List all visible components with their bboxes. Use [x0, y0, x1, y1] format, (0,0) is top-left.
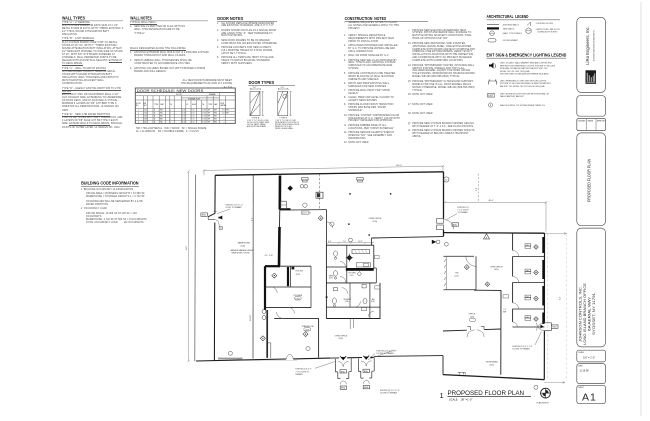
toilet fixtures top — [334, 251, 338, 279]
svg-text:(107): (107) — [329, 278, 333, 280]
keynote circle bottom right — [534, 385, 538, 389]
svg-text:FILE RM: FILE RM — [296, 271, 304, 273]
toilet fixtures bottom — [332, 285, 367, 307]
wall y210 to x326 — [291, 209, 327, 211]
svg-text:TO REMAIN: TO REMAIN — [458, 211, 469, 214]
svg-text:JAN: JAN — [372, 298, 376, 301]
wall notes text column — [130, 22, 209, 76]
kitchen counter — [352, 249, 370, 253]
svg-text:AND MORTISE FRAME: AND MORTISE FRAME — [247, 125, 267, 128]
construction notes column 1 — [344, 22, 400, 146]
svg-text:1: 1 — [170, 119, 171, 121]
svg-text:DOOR SCHEDULE: NEW DOORS: DOOR SCHEDULE: NEW DOORS — [137, 88, 204, 93]
titleblock: LiRo logo — [586, 70, 597, 84]
svg-text:DOOR: DOOR — [176, 94, 182, 96]
open office 102 label — [335, 336, 349, 341]
gray wall bottom-left — [218, 358, 243, 360]
keynote circle bottom wall — [228, 351, 232, 355]
svg-text:BACKUP. TEC MODEL TEC-R-70-M-C: BACKUP. TEC MODEL TEC-R-70-M-CW OR EQUAL… — [500, 85, 546, 88]
keynote circle cluster — [349, 238, 353, 242]
svg-text:3'-4": 3'-4" — [328, 241, 332, 243]
open office 103b label — [490, 266, 504, 271]
work area label — [486, 361, 498, 367]
label wing door — [458, 207, 470, 214]
svg-text:WALL TYPES: WALL TYPES — [62, 15, 85, 20]
svg-text:SF: SF — [208, 119, 210, 121]
svg-text:101: 101 — [144, 110, 147, 112]
svg-text:TYPE: TYPE — [154, 104, 158, 106]
svg-text:2: 2 — [138, 113, 139, 115]
svg-text:SCALE: 1/8 "=1'-0": SCALE: 1/8 "=1'-0" — [449, 397, 472, 401]
svg-text:7'-4": 7'-4" — [343, 241, 347, 243]
svg-text:DESIGNED: DESIGNED — [578, 120, 587, 122]
svg-text:136: 136 — [526, 270, 529, 272]
door type B note — [275, 120, 300, 130]
wing top wall — [444, 232, 545, 235]
speaker symbol left — [218, 216, 222, 220]
svg-text:JOHNSON CONTROLS, INC.: JOHNSON CONTROLS, INC. — [578, 286, 582, 342]
dim labels — [265, 255, 274, 257]
svg-text:1: 1 — [170, 113, 171, 115]
svg-text:3'-1": 3'-1" — [476, 187, 478, 191]
svg-text:9'-6": 9'-6" — [251, 217, 253, 221]
svg-text:(108): (108) — [345, 301, 349, 303]
legend: existing walls symbol — [487, 24, 499, 26]
svg-text:WIRED GLASS PANEL: WIRED GLASS PANEL — [275, 127, 293, 130]
vestibule left — [335, 359, 351, 379]
svg-text:HGHT: HGHT — [192, 104, 197, 106]
center rooms walls — [265, 266, 311, 310]
svg-text:- ROOM NUMBER: - ROOM NUMBER — [502, 40, 518, 42]
svg-text:APPROVED: APPROVED — [597, 119, 606, 122]
door schedule table — [135, 88, 235, 123]
triangle A symbol — [484, 234, 490, 239]
center bottom wall — [374, 355, 443, 358]
wing top right door keynote — [444, 177, 449, 182]
svg-text:RM: RM — [144, 103, 147, 105]
exit sign legend heading — [487, 53, 567, 58]
svg-text:- EXISTING WALLS: - EXISTING WALLS — [502, 23, 520, 26]
svg-text:PROVIDE DIRECTIONAL ARROWS WHE: PROVIDE DIRECTIONAL ARROWS WHERE INDICAT… — [500, 73, 550, 76]
svg-text:108: 108 — [144, 119, 147, 121]
svg-text:PROPOSED FLOOR PLAN: PROPOSED FLOOR PLAN — [587, 159, 592, 202]
svg-text:A: A — [154, 118, 156, 121]
svg-text:LiRo Engineers, Inc.: LiRo Engineers, Inc. — [585, 26, 590, 65]
svg-text:106: 106 — [144, 116, 147, 118]
legend: room number symbol — [488, 39, 496, 42]
svg-text:7'-0": 7'-0" — [191, 122, 195, 124]
door type A note — [247, 120, 270, 128]
dim label boxes 4'-6 / 7'-0 — [302, 212, 312, 214]
diamond open office — [485, 282, 490, 287]
thermostat diamond mid — [318, 216, 323, 221]
svg-text:1/8" = 1'-0": 1/8" = 1'-0" — [583, 357, 595, 360]
note above door schedule — [180, 80, 232, 90]
svg-text:96'-0": 96'-0" — [186, 245, 188, 250]
svg-text:(103): (103) — [373, 221, 378, 223]
svg-text:DOOR TO REMAIN: DOOR TO REMAIN — [226, 206, 243, 209]
svg-text:USE 2 EMERGENCY LIGHT UNIT WIT: USE 2 EMERGENCY LIGHT UNIT WITH LED LIGH… — [500, 80, 547, 82]
dark drain symbol — [347, 255, 353, 261]
note below door schedule — [136, 128, 214, 134]
plan north compass — [541, 388, 551, 398]
svg-text:1: 1 — [170, 122, 171, 124]
cluster keynote rects — [375, 255, 380, 258]
double door office 109 — [467, 326, 484, 330]
door arc room b — [271, 287, 277, 293]
door type B elevation — [278, 88, 292, 116]
svg-text:- NEW WALLS: - NEW WALLS — [502, 27, 515, 30]
svg-text:(101): (101) — [350, 275, 354, 277]
door arc bottom wall — [286, 354, 293, 359]
legend: new door symbol — [526, 28, 531, 34]
dim line left 96'-0" — [187, 170, 189, 362]
wall left inner — [213, 175, 216, 360]
svg-text:SYOSSET, NY 11791: SYOSSET, NY 11791 — [592, 293, 596, 335]
wing west lower — [442, 356, 444, 375]
svg-text:DOORS TO REMAIN: DOORS TO REMAIN — [380, 392, 398, 395]
svg-text:NEW WORK: 910 SF: NEW WORK: 910 SF — [232, 253, 251, 255]
svg-text:- WALL TYPE SYMBOL: - WALL TYPE SYMBOL — [502, 32, 522, 35]
furniture bench bottom — [458, 372, 465, 374]
svg-text:BUILDING CODE INFORMATION: BUILDING CODE INFORMATION — [81, 181, 138, 186]
svg-text:USE 1 DOUBLE "WALL WASHER" NEW: USE 1 DOUBLE "WALL WASHER" NEW AND LIGHT… — [500, 62, 553, 65]
keynote box E50 bottom — [552, 325, 559, 328]
wing west door bump — [437, 219, 444, 224]
svg-text:9'-4": 9'-4" — [560, 296, 562, 300]
wing office dividers — [513, 257, 545, 328]
svg-text:1 1/2 HR: 1 1/2 HR — [222, 110, 229, 112]
wall thick horiz at 209 — [280, 208, 291, 210]
svg-text:(105): (105) — [296, 274, 301, 276]
training room label — [302, 325, 314, 332]
svg-text:A LICENSED NEW YORK ENGINEERIN: A LICENSED NEW YORK ENGINEERING P.C. — [593, 29, 596, 61]
svg-text:7'-0": 7'-0" — [191, 113, 195, 115]
svg-text:1 1/2 HR: 1 1/2 HR — [222, 113, 229, 115]
svg-text:SF: SF — [208, 116, 210, 118]
keynote circles left — [262, 310, 266, 314]
svg-text:NEW WITH LED EMERGENCY LIGHTS.: NEW WITH LED EMERGENCY LIGHTS. FIXTURE T… — [500, 65, 556, 67]
svg-text:12: 12 — [445, 179, 448, 181]
svg-text:NO.: NO. — [136, 105, 139, 107]
door types heading — [249, 80, 275, 85]
svg-text:SF: SF — [208, 113, 210, 115]
janitor slot — [268, 343, 271, 358]
svg-text:REMAIN: REMAIN — [296, 373, 304, 376]
wall x253 — [252, 175, 254, 359]
plan title — [440, 390, 525, 401]
kitchen diamond — [357, 272, 361, 276]
door notes text column — [217, 23, 278, 67]
svg-text:1 3/4": 1 3/4" — [202, 122, 207, 124]
arrow glyph — [432, 240, 437, 244]
svg-text:104: 104 — [144, 113, 147, 115]
roof vent symbol 2 — [357, 178, 364, 182]
toilet cluster walls — [326, 245, 380, 329]
svg-text:RM: RM — [455, 272, 458, 274]
file rm label — [296, 271, 304, 276]
svg-text:WALL NOTES: WALL NOTES — [130, 15, 152, 20]
svg-text:PROPOSED FLOOR PLAN: PROPOSED FLOOR PLAN — [448, 390, 525, 397]
titleblock: firm box — [577, 17, 606, 403]
svg-text:46'-0": 46'-0" — [489, 200, 494, 202]
svg-text:MENS: MENS — [329, 275, 334, 277]
legend: new walls symbol — [487, 27, 499, 29]
svg-text:MAT: MAT — [214, 103, 217, 106]
svg-text:AREA IN WAREHOUSE AT: AREA IN WAREHOUSE AT — [231, 249, 255, 252]
svg-text:A: A — [154, 115, 156, 118]
wing west wall upper — [443, 172, 445, 237]
svg-text:WALL MOUNTED TYP. EXTINGUISHER: WALL MOUNTED TYP. EXTINGUISHER, RATED 2 … — [500, 104, 546, 107]
roof vent symbol 1 — [302, 178, 309, 182]
legend: exit speaker icon — [489, 63, 494, 69]
svg-text:NOMINAL SIZE: NOMINAL SIZE — [188, 98, 201, 101]
svg-text:1: 1 — [170, 110, 171, 112]
svg-text:(102): (102) — [339, 338, 344, 340]
svg-text:- EXISTING DOORS: - EXISTING DOORS — [536, 23, 554, 25]
rotated dims — [186, 187, 478, 321]
svg-text:MODEL TEC-70L UNIT OR EQUAL.: MODEL TEC-70L UNIT OR EQUAL. — [500, 70, 531, 73]
svg-text:CONSTRUCTION NOTES: CONSTRUCTION NOTES — [345, 16, 387, 21]
column headings — [62, 15, 386, 185]
floor plan — [186, 165, 567, 395]
svg-text:FIXTURE TO INCLUDE INTEGRAL OR: FIXTURE TO INCLUDE INTEGRAL OR REMOTE BA… — [500, 82, 552, 85]
office east wall thick bars — [542, 237, 544, 324]
svg-text:DOOR NOTES: DOOR NOTES — [217, 16, 243, 21]
svg-text:SF: SF — [208, 122, 210, 124]
svg-text:(109): (109) — [371, 301, 375, 303]
door arc mid — [327, 222, 333, 228]
svg-text:DRAWN: DRAWN — [587, 119, 593, 122]
svg-text:3'-0": 3'-0" — [182, 119, 186, 121]
svg-text:3'-0": 3'-0" — [182, 122, 186, 124]
wall left existing dashed — [194, 175, 197, 361]
wing office doors — [513, 250, 519, 326]
svg-text:OFFICE: OFFICE — [469, 314, 476, 316]
legend: exit light icon — [488, 94, 495, 98]
svg-text:DOORS TO REMAIN: DOORS TO REMAIN — [377, 352, 395, 355]
svg-text:1 3/4": 1 3/4" — [202, 116, 207, 118]
dim line right wing 46'-0" — [444, 174, 547, 232]
wall x326 down — [325, 210, 327, 246]
svg-text:(105): (105) — [490, 364, 495, 366]
wing bottom wall — [443, 375, 544, 380]
keynote circles top — [300, 185, 304, 189]
svg-text:SET: SET — [144, 105, 147, 107]
legend: existing door symbol — [527, 22, 531, 26]
svg-text:WOMENS: WOMENS — [344, 299, 351, 301]
svg-text:14'-8": 14'-8" — [358, 241, 363, 243]
wing right wall — [543, 233, 545, 379]
svg-text:SCHEDULE FOR INFO: SCHEDULE FOR INFO — [538, 32, 558, 34]
svg-text:SHEET: SHEET — [578, 387, 584, 389]
svg-text:DOOR: DOOR — [136, 103, 142, 105]
svg-text:(110): (110) — [454, 275, 458, 277]
svg-text:AFF: AFF — [503, 310, 506, 313]
cluster dim labels — [328, 241, 363, 243]
office 109 — [443, 290, 501, 375]
door type A elevation — [250, 88, 264, 116]
equipment rect — [316, 192, 323, 198]
svg-text:6A AERIAL WAY: 6A AERIAL WAY — [587, 296, 591, 331]
building code info text — [81, 189, 151, 227]
dots — [326, 193, 392, 298]
legend: wall mounted icon — [488, 103, 492, 107]
svg-text:DOOR TYPES: DOOR TYPES — [249, 80, 275, 85]
svg-text:1 3/4": 1 3/4" — [202, 113, 207, 115]
wall types text column — [62, 22, 124, 132]
wall top — [215, 172, 443, 176]
svg-text:(103): (103) — [494, 269, 499, 271]
svg-text:SCALE: SCALE — [578, 351, 584, 354]
keynote circle bottom — [306, 346, 310, 350]
thermostat diamond top — [288, 186, 293, 191]
svg-text:3'-0": 3'-0" — [182, 113, 186, 115]
svg-text:TRAINING RM: TRAINING RM — [302, 325, 314, 328]
label left door — [226, 205, 244, 210]
wing office labels — [525, 244, 531, 321]
training room — [274, 318, 318, 357]
bottom wall left — [196, 357, 374, 361]
svg-text:4: 4 — [138, 119, 139, 121]
open office 103 label — [369, 218, 383, 223]
svg-text:1: 1 — [138, 110, 139, 112]
office 109 label — [469, 314, 476, 319]
appliance counter — [356, 263, 371, 267]
svg-text:110: 110 — [144, 122, 147, 124]
svg-text:5: 5 — [138, 122, 139, 124]
diamond room — [464, 265, 469, 270]
svg-text:DATE: DATE — [578, 364, 583, 367]
svg-text:3'-0": 3'-0" — [281, 87, 285, 89]
svg-text:USE 3 EXTERIOR LIGHT FIXTURE W: USE 3 EXTERIOR LIGHT FIXTURE WITH INTEGR… — [500, 92, 550, 95]
svg-text:4'-6" 4'-10": 4'-6" 4'-10" — [265, 255, 274, 257]
closet left of thick wall — [281, 201, 287, 209]
vestibule right — [358, 358, 374, 378]
svg-text:EXIT: EXIT — [488, 95, 494, 98]
keynote circle left door — [219, 226, 223, 230]
svg-text:FIRE: FIRE — [220, 103, 224, 105]
gray wall x267 — [266, 310, 268, 358]
door tick room c — [292, 267, 295, 270]
door arc corridor — [289, 308, 295, 314]
storage label — [294, 294, 304, 300]
svg-text:31'-6": 31'-6" — [317, 191, 319, 196]
svg-text:EXIT SIGN & EMERGENCY LIGHTING: EXIT SIGN & EMERGENCY LIGHTING LEGEND — [487, 53, 567, 58]
keynote box E50 left — [201, 213, 208, 216]
svg-text:(100): (100) — [241, 245, 246, 247]
dim line cluster — [327, 242, 374, 244]
svg-text:3'-0": 3'-0" — [182, 110, 186, 112]
svg-text:1: 1 — [170, 116, 171, 118]
svg-text:3: 3 — [138, 116, 139, 118]
svg-text:ARCHITECTURAL LEGEND: ARCHITECTURAL LEGEND — [487, 14, 529, 19]
construction notes column 2 — [408, 30, 476, 141]
keynote box E50 wing — [452, 223, 459, 226]
wing interior wall x513 — [512, 233, 514, 327]
svg-text:TYPE: TYPE — [208, 104, 212, 106]
left entry door — [214, 210, 217, 212]
dim line top 165'-0" — [203, 165, 444, 175]
svg-text:11-19-98: 11-19-98 — [580, 371, 590, 373]
svg-text:PLAN NORTH: PLAN NORTH — [537, 402, 550, 405]
svg-text:W: W — [186, 104, 188, 106]
svg-text:WALLS BATTERY BACKUP: WALLS BATTERY BACKUP — [500, 95, 524, 98]
svg-text:MAT.: MAT. — [160, 103, 164, 106]
keynote rects right — [503, 295, 509, 298]
wall y237 center — [372, 237, 444, 238]
svg-text:WORK AREA: WORK AREA — [486, 361, 498, 364]
svg-text:RL: RL — [170, 104, 172, 106]
kitchen dark band — [346, 268, 374, 271]
svg-text:TH.: TH. — [202, 104, 205, 106]
svg-text:KITCHEN: KITCHEN — [349, 273, 357, 275]
legend: emergency light icon — [489, 79, 497, 84]
page edge line — [640, 2, 642, 416]
svg-text:7'-0": 7'-0" — [191, 116, 195, 118]
svg-text:1 3/4": 1 3/4" — [202, 119, 207, 121]
meeting room top-left of wing — [444, 256, 477, 290]
legend: wall type symbol — [490, 31, 495, 36]
cluster labels — [329, 273, 375, 304]
svg-text:DOORS TO REMAIN: DOORS TO REMAIN — [513, 347, 531, 350]
svg-text:A1: A1 — [582, 392, 597, 404]
svg-text:137: 137 — [526, 296, 529, 298]
wing office diamonds — [534, 245, 539, 322]
room a diamond — [272, 273, 277, 278]
svg-text:FRAME: FRAME — [209, 93, 216, 96]
svg-text:7'-0": 7'-0" — [191, 110, 195, 112]
svg-text:WAREHOUSE: WAREHOUSE — [238, 242, 251, 245]
svg-text:1 3/4": 1 3/4" — [202, 110, 207, 112]
svg-text:135: 135 — [526, 245, 529, 247]
svg-text:3'-0": 3'-0" — [182, 116, 186, 118]
cluster door arcs — [340, 262, 374, 317]
wall thick x280 — [278, 176, 281, 210]
architectural legend heading — [487, 14, 529, 19]
svg-text:INTEGRAL OR WALLED BATTERY BAC: INTEGRAL OR WALLED BATTERY BACKUP UNIT. … — [500, 67, 548, 70]
svg-text:1: 1 — [440, 391, 444, 400]
svg-text:LONG ISLAND BRANCH OFFICE: LONG ISLAND BRANCH OFFICE — [583, 282, 587, 345]
svg-text:SF: SF — [208, 110, 210, 112]
label wing bottom doors — [513, 346, 533, 351]
svg-text:9'-0 1/2": 9'-0 1/2" — [250, 314, 252, 321]
svg-text:138: 138 — [526, 317, 529, 319]
dashed line x319 — [319, 174, 321, 210]
warehouse label — [231, 242, 255, 255]
vestibule labels — [296, 351, 401, 395]
wing right wall door — [537, 323, 545, 331]
diamond left — [260, 336, 265, 341]
svg-text:165'-0": 165'-0" — [396, 165, 402, 167]
svg-text:7'-0": 7'-0" — [191, 119, 195, 121]
training thermostat — [303, 332, 308, 337]
svg-text:3'-0": 3'-0" — [253, 87, 257, 89]
keynote circle — [303, 203, 307, 207]
